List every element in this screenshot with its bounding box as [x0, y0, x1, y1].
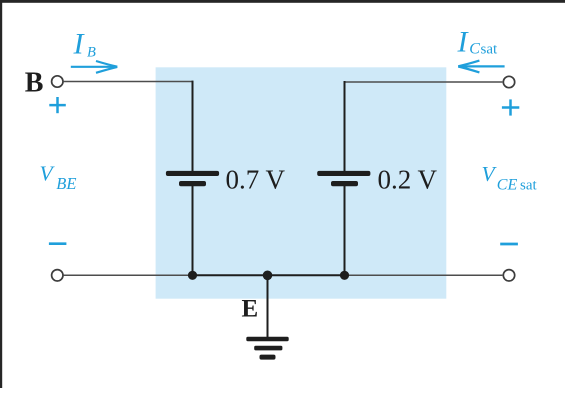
wire: VBE battery vertical bottom [192, 186, 194, 275]
terminal B open circle [52, 76, 63, 87]
terminal bottom-left open circle [52, 270, 63, 281]
battery VBE 0.7V short plate [179, 181, 206, 186]
svg-text:E: E [242, 296, 259, 323]
battery VCE 0.2V long plate [317, 171, 370, 176]
svg-text:B: B [87, 45, 96, 61]
minus sign left [49, 242, 67, 245]
wire: VCE battery vertical bottom [344, 186, 346, 275]
svg-text:0.2 V: 0.2 V [378, 165, 438, 195]
junction node emitter [263, 271, 273, 281]
wire: emitter down to ground [267, 275, 269, 338]
terminal bottom-right open circle [503, 270, 514, 281]
minus sign right [500, 243, 518, 246]
svg-text:C: C [469, 41, 480, 58]
label VBE [40, 162, 77, 194]
wire: base terminal to VBE battery top [64, 81, 193, 83]
battery VBE 0.7V long plate [166, 171, 219, 176]
wire: bottom rail right gray segment [345, 274, 503, 276]
plus sign right [502, 99, 519, 115]
plus sign left [49, 97, 66, 113]
wire: VBE battery vertical top [192, 81, 194, 172]
terminal C open circle [503, 76, 514, 87]
svg-text:sat: sat [481, 42, 498, 58]
label IB current [73, 28, 97, 61]
frame left border [0, 0, 2, 388]
wire: collector terminal to VCE battery top [345, 81, 503, 83]
label VCEsat [482, 162, 538, 194]
svg-text:CE: CE [497, 177, 518, 194]
svg-text:B: B [25, 67, 44, 98]
ground symbol [246, 337, 288, 360]
arrow IB [71, 61, 118, 73]
label ICsat current [457, 26, 498, 59]
battery VCE 0.2V short plate [331, 181, 358, 186]
wire: bottom rail left gray segment [64, 274, 193, 276]
frame top border [0, 0, 565, 3]
wire: bottom rail black segment between junctions [193, 274, 345, 276]
junction node C-side [340, 271, 349, 280]
svg-text:sat: sat [520, 178, 537, 194]
arrow ICsat [458, 61, 504, 73]
svg-text:BE: BE [56, 174, 76, 193]
wire: VCE battery vertical top [344, 81, 346, 172]
svg-text:0.7 V: 0.7 V [226, 165, 286, 195]
junction node B-side [188, 271, 197, 280]
saturation region shading box [156, 67, 447, 298]
